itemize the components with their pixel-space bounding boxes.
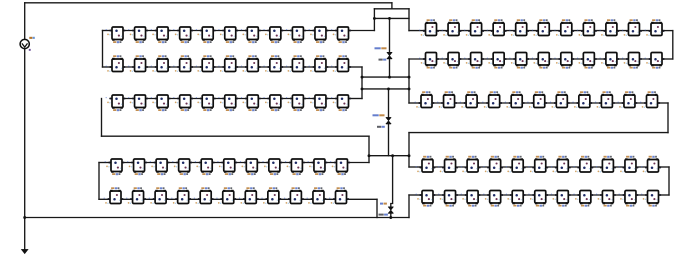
wire row R3 left end from node M1 xyxy=(409,102,421,104)
wire row R1 left end from top node xyxy=(409,30,426,32)
PV module UB7 xyxy=(241,55,261,72)
PV module UR32 xyxy=(437,91,457,108)
PV module UC1 xyxy=(106,95,126,111)
wire row D right end up to node M2 xyxy=(368,156,370,163)
wire stub bracket to row E first module xyxy=(99,198,110,200)
wire top rail xyxy=(25,2,392,4)
junction xyxy=(387,87,390,90)
wire row R1 right end xyxy=(662,30,673,32)
PV module UD1 xyxy=(105,159,125,175)
junction xyxy=(361,87,364,90)
PV module UC7 xyxy=(241,95,261,111)
PV module UE10 xyxy=(307,187,327,204)
PV module UR36 xyxy=(527,91,547,108)
PV module UR19 xyxy=(600,19,620,36)
PV module UE7 xyxy=(239,187,259,204)
wire row C left bracket down xyxy=(101,99,103,137)
PV module UR26 xyxy=(532,53,552,69)
junction xyxy=(391,154,394,157)
PV module UB8 xyxy=(263,55,283,72)
PV module UR23 xyxy=(464,53,484,69)
wire row R2 right end xyxy=(662,58,673,60)
PV module UD5 xyxy=(195,159,215,175)
PV module UR38 xyxy=(572,91,592,108)
PV module UB9 xyxy=(286,55,306,72)
wire row E right end xyxy=(347,198,378,200)
wire bracket joining rows RD and RE right ends xyxy=(668,167,670,195)
PV module URE5 xyxy=(506,191,526,207)
bypass diode D2 xyxy=(386,118,391,124)
wire stub bracket to row A first module xyxy=(103,30,113,32)
wire bypass diode D3 cathode to bottom rail xyxy=(390,213,392,218)
PV module URD5 xyxy=(506,156,526,173)
wire stub bracket to row D first module xyxy=(99,162,111,164)
PV module UA8 xyxy=(263,27,283,43)
PV module UR311 xyxy=(640,91,660,108)
label plus mark of source xyxy=(29,49,31,51)
PV module UB2 xyxy=(128,55,148,72)
PV module URD1 xyxy=(416,156,436,173)
PV module UB11 xyxy=(331,55,351,72)
PV module UR27 xyxy=(554,53,574,69)
PV module UA2 xyxy=(128,27,148,43)
PV module UA9 xyxy=(286,27,306,43)
PV module UC3 xyxy=(151,95,171,111)
PV module UA4 xyxy=(173,27,193,43)
junction xyxy=(361,76,364,79)
PV module UA5 xyxy=(196,27,216,43)
wire row A series bus xyxy=(110,30,351,32)
PV module UD3 xyxy=(150,159,170,175)
wire row R3 series bus xyxy=(419,102,660,104)
wire bypass diode D2 cathode to node M2 xyxy=(388,124,390,156)
PV module UR15 xyxy=(509,19,529,36)
PV module UR11 xyxy=(419,19,439,36)
PV module URE11 xyxy=(641,191,661,207)
PV module UD6 xyxy=(217,159,237,175)
PV module UR310 xyxy=(618,91,638,108)
PV module UR21 xyxy=(419,53,439,69)
wire row B series bus xyxy=(110,66,351,68)
ground / output arrow xyxy=(21,249,28,253)
PV module UA6 xyxy=(218,27,238,43)
PV module URD4 xyxy=(483,156,503,173)
PV module URE8 xyxy=(573,191,593,207)
junction xyxy=(388,76,391,79)
PV module UE4 xyxy=(171,187,191,204)
PV module UA1 xyxy=(106,27,126,43)
PV module URE2 xyxy=(438,191,458,207)
wire row R2 series bus xyxy=(424,58,665,60)
PV module UE9 xyxy=(284,187,304,204)
PV module URE3 xyxy=(461,191,481,207)
label Rb_Db1 xyxy=(375,47,387,49)
wire top rail drop into top node xyxy=(391,3,393,9)
PV module UR17 xyxy=(554,19,574,36)
wire from source V1 minus terminal down to output arrow xyxy=(24,48,26,249)
PV module URD10 xyxy=(619,156,639,173)
PV module UR14 xyxy=(487,19,507,36)
PV module UE11 xyxy=(329,187,349,204)
wire row C wrap drop to node M2 xyxy=(368,136,370,156)
wire row C series bus xyxy=(110,98,351,100)
junction xyxy=(23,216,26,219)
junction xyxy=(373,17,376,20)
PV module URD6 xyxy=(528,156,548,173)
PV module UR25 xyxy=(509,53,529,69)
PV module URD9 xyxy=(596,156,616,173)
wire bypass diode D1 cathode to node M1 xyxy=(389,59,391,77)
wire bracket joining rows A and B left ends xyxy=(102,31,104,68)
wire node M1 left vertical xyxy=(361,67,363,99)
wire row A right end to top node xyxy=(349,30,375,32)
junction xyxy=(408,87,411,90)
PV module UR13 xyxy=(464,19,484,36)
PV module UR22 xyxy=(442,53,462,69)
PV module UR211 xyxy=(645,53,665,69)
PV module UB10 xyxy=(309,55,329,72)
wire row RE drop to bottom rail xyxy=(408,195,410,218)
PV module UD9 xyxy=(285,159,305,175)
PV module UR110 xyxy=(622,19,642,36)
PV module UC2 xyxy=(128,95,148,111)
wire row C wrap line to node M2 xyxy=(102,135,370,137)
wire row D right end xyxy=(348,162,370,164)
PV module URE10 xyxy=(619,191,639,207)
wire bottom rail xyxy=(25,217,409,219)
wire node M1 upper horizontal xyxy=(362,76,409,78)
PV module UR18 xyxy=(577,19,597,36)
label Db2 xyxy=(377,126,385,128)
PV module UR24 xyxy=(487,53,507,69)
wire row B right end to node M1 xyxy=(349,66,363,68)
PV module URD2 xyxy=(438,156,458,173)
PV module UC4 xyxy=(173,95,193,111)
PV module UR111 xyxy=(645,19,665,36)
PV module URE7 xyxy=(551,191,571,207)
PV module UE1 xyxy=(104,187,124,204)
label IN of source xyxy=(29,37,35,39)
wire bypass diode D3 anode from node M2 xyxy=(391,156,393,207)
PV module UR16 xyxy=(532,19,552,36)
PV module URD8 xyxy=(573,156,593,173)
PV module UC9 xyxy=(286,95,306,111)
wire top node right vertical to row R1 xyxy=(408,9,410,31)
PV module UR35 xyxy=(505,91,525,108)
PV module UR33 xyxy=(460,91,480,108)
wire row RE left end xyxy=(409,194,422,196)
junction xyxy=(388,17,391,20)
wire row RD right end xyxy=(659,166,670,168)
current source V1 xyxy=(20,39,29,48)
PV module UB6 xyxy=(218,55,238,72)
wire row R2 left end from node M1 xyxy=(409,58,426,60)
PV module UD11 xyxy=(330,159,350,175)
PV module UC11 xyxy=(331,95,351,111)
junction xyxy=(368,154,371,157)
PV module UD10 xyxy=(308,159,328,175)
PV module UE3 xyxy=(149,187,169,204)
PV module UC8 xyxy=(263,95,283,111)
wire node M2 horizontal xyxy=(369,155,409,157)
wire bracket joining rows R1 and R2 right ends xyxy=(672,31,674,59)
PV module URE1 xyxy=(416,191,436,207)
wire top node upper horizontal H1 xyxy=(374,8,409,10)
PV module UB3 xyxy=(151,55,171,72)
label Rb_Db2 xyxy=(373,114,385,116)
PV module UR31 xyxy=(415,91,435,108)
wire bypass diode D2 anode from node M1 xyxy=(388,89,390,118)
PV module URE6 xyxy=(528,191,548,207)
bypass diode D3 xyxy=(388,207,393,213)
junction xyxy=(389,216,392,219)
PV module UR34 xyxy=(482,91,502,108)
PV module UA10 xyxy=(309,27,329,43)
wire row R3 right end xyxy=(658,102,669,104)
wire row C right end to node M1 xyxy=(349,98,363,100)
PV module UR37 xyxy=(550,91,570,108)
PV module UA11 xyxy=(331,27,351,43)
PV module UC5 xyxy=(196,95,216,111)
PV module UD7 xyxy=(240,159,260,175)
wire row RE series bus xyxy=(420,194,661,196)
wire row R1 series bus xyxy=(424,30,665,32)
PV module URD11 xyxy=(641,156,661,173)
PV module UD4 xyxy=(172,159,192,175)
junction xyxy=(408,76,411,79)
PV module UD2 xyxy=(127,159,147,175)
wire bracket joining rows D and E left ends xyxy=(98,163,100,200)
PV module UA7 xyxy=(241,27,261,43)
PV module URD3 xyxy=(461,156,481,173)
PV module UE2 xyxy=(126,187,146,204)
PV module UR29 xyxy=(600,53,620,69)
wire node M2 right vertical to row RD xyxy=(408,133,410,167)
wire stub bracket to row B first module xyxy=(103,66,113,68)
label Db1 xyxy=(379,59,387,61)
bypass diode D1 xyxy=(387,53,392,59)
PV module UE8 xyxy=(261,187,281,204)
PV module URE9 xyxy=(596,191,616,207)
PV module UB1 xyxy=(106,55,126,72)
junction xyxy=(408,154,411,157)
wire row E drop to bottom rail xyxy=(376,199,378,217)
PV module URD7 xyxy=(551,156,571,173)
wire row R3 wrap right vertical xyxy=(667,103,669,133)
PV module UE5 xyxy=(194,187,214,204)
wire top node lower horizontal H2 xyxy=(374,17,409,19)
PV module UC10 xyxy=(309,95,329,111)
wire bypass diode D1 anode from top node xyxy=(389,18,391,52)
label Db3 xyxy=(379,214,388,216)
PV module UC6 xyxy=(218,95,238,111)
PV module UD8 xyxy=(262,159,282,175)
wire row E series bus xyxy=(108,198,349,200)
wire from source V1 plus terminal up the left edge xyxy=(24,3,26,40)
wire node M1 right vertical xyxy=(408,59,410,103)
wire row D series bus xyxy=(109,162,350,164)
label Rb_Db3 xyxy=(380,203,387,205)
PV module UR39 xyxy=(595,91,615,108)
PV module UB4 xyxy=(173,55,193,72)
wire row RD left end from node M2 xyxy=(409,166,422,168)
wire top node left vertical to row A xyxy=(373,9,375,31)
wire row RD series bus xyxy=(420,166,661,168)
PV module UA3 xyxy=(151,27,171,43)
PV module UE6 xyxy=(216,187,236,204)
wire row RE right end xyxy=(659,194,670,196)
PV module UR210 xyxy=(622,53,642,69)
PV module UR28 xyxy=(577,53,597,69)
PV module UB5 xyxy=(196,55,216,72)
wire row R3 wrap return line xyxy=(409,132,668,134)
wire node M1 lower horizontal xyxy=(362,88,409,90)
PV module UR12 xyxy=(442,19,462,36)
PV module URE4 xyxy=(483,191,503,207)
